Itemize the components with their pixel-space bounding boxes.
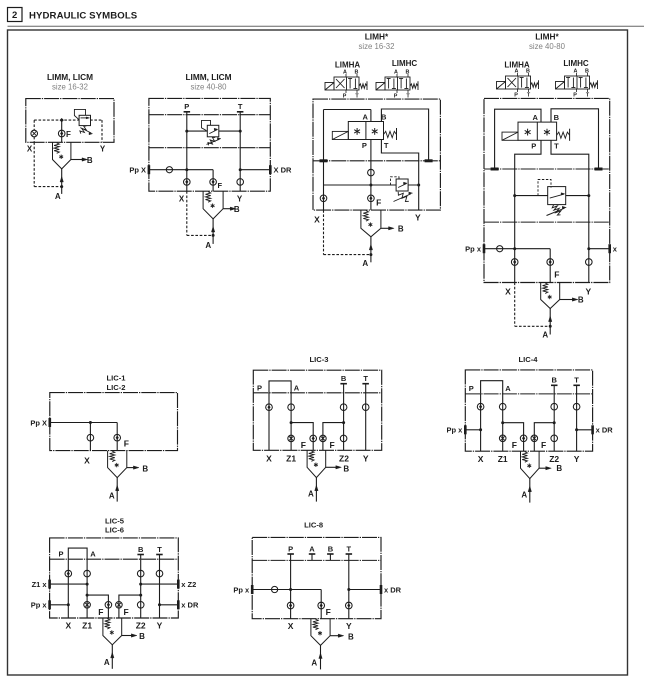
svg-text:Z1: Z1	[286, 453, 296, 463]
section line	[50, 558, 179, 560]
pilot valve body	[518, 122, 557, 140]
poppet valve body	[541, 283, 560, 309]
branch Z2 to F	[342, 421, 345, 424]
svg-text:A: A	[394, 69, 398, 75]
poppet setting asterisk	[369, 222, 371, 226]
LIMHC valve	[385, 77, 410, 90]
svg-text:T: T	[347, 544, 352, 553]
port x DR	[380, 585, 383, 594]
return spring	[557, 132, 570, 138]
pilot line dashed horizontal	[34, 119, 102, 121]
svg-text:LIMHA: LIMHA	[335, 61, 361, 70]
Pp line	[50, 422, 117, 424]
RV2 spring	[208, 137, 215, 145]
section line upper	[149, 114, 270, 116]
orifice F right cross	[531, 435, 538, 442]
svg-text:LIMM, LICM: LIMM, LICM	[47, 72, 93, 82]
svg-text:A: A	[205, 241, 211, 250]
svg-text:A: A	[311, 658, 317, 667]
orifice F	[114, 434, 121, 441]
manifold enclosure	[149, 98, 270, 191]
svg-text:A: A	[362, 259, 368, 268]
return spring	[359, 84, 367, 88]
return spring	[384, 131, 397, 137]
P-A bridge	[68, 548, 87, 559]
svg-text:T: T	[554, 142, 559, 151]
svg-text:A: A	[104, 658, 110, 667]
svg-text:Y: Y	[157, 621, 163, 631]
svg-text:B: B	[406, 69, 410, 75]
port x right	[608, 244, 611, 253]
orifice F	[318, 602, 325, 609]
relief valve body	[207, 125, 219, 137]
poppet setting asterisk	[60, 155, 62, 159]
svg-text:Z2: Z2	[549, 454, 559, 464]
poppet valve body	[53, 142, 71, 169]
svg-text:A: A	[294, 384, 300, 393]
manifold enclosure	[26, 99, 114, 143]
port B tick	[327, 553, 334, 555]
svg-text:P: P	[573, 93, 577, 99]
orifice Z2 lower	[551, 435, 558, 442]
orifice Z2 lower	[137, 602, 144, 609]
pilot line dashed X branch upper	[33, 120, 35, 130]
orifice Z1 upper	[499, 403, 506, 410]
dashed X line	[186, 191, 188, 235]
svg-text:Z1: Z1	[498, 454, 508, 464]
svg-text:A: A	[532, 113, 538, 122]
svg-text:X: X	[478, 454, 484, 464]
svg-text:P: P	[288, 544, 293, 553]
solenoid	[497, 82, 506, 90]
port x DR	[591, 425, 594, 434]
poppet setting asterisk	[549, 295, 551, 299]
svg-text:B: B	[355, 69, 359, 75]
svg-text:X: X	[84, 455, 90, 465]
P-A bridge	[481, 381, 503, 394]
header rule	[8, 25, 645, 27]
port x Z2	[177, 580, 180, 589]
gauge circle	[272, 586, 278, 592]
B column	[343, 384, 345, 451]
svg-text:Pp X: Pp X	[30, 418, 47, 427]
svg-text:B: B	[234, 205, 240, 214]
F column	[320, 590, 322, 619]
branch Z1 to F	[290, 421, 293, 424]
svg-text:B: B	[551, 376, 557, 385]
pilot line dashed to Y	[101, 120, 103, 142]
poppet valve body	[311, 619, 330, 646]
orifice under T	[586, 259, 593, 266]
svg-text:HYDRAULIC SYMBOLS: HYDRAULIC SYMBOLS	[29, 11, 138, 22]
A loop left vertical	[323, 110, 325, 161]
svg-text:F: F	[124, 607, 129, 617]
svg-text:T: T	[384, 141, 389, 150]
section line	[313, 160, 440, 162]
svg-text:P: P	[531, 142, 536, 151]
solenoid	[556, 82, 565, 90]
svg-text:F: F	[218, 181, 223, 190]
svg-text:F: F	[554, 270, 559, 280]
svg-text:Y: Y	[574, 454, 580, 464]
svg-text:Y: Y	[415, 212, 421, 222]
RV1 adjustment arrow	[80, 128, 91, 133]
tick left on section line	[320, 159, 328, 162]
svg-text:size 40-80: size 40-80	[529, 42, 566, 51]
svg-text:F: F	[376, 197, 381, 207]
P path	[515, 140, 541, 282]
svg-text:x DR: x DR	[596, 426, 614, 435]
B column	[553, 385, 555, 451]
port B branch	[330, 635, 339, 637]
RV1 pilot loop	[74, 109, 85, 119]
port Pp x	[48, 600, 51, 609]
svg-text:X: X	[266, 453, 272, 463]
poppet spring	[54, 143, 59, 154]
svg-text:A: A	[505, 384, 511, 393]
svg-text:A: A	[515, 68, 519, 74]
dashed X line below box	[33, 142, 35, 186]
RV2 adjustment arrow	[207, 139, 220, 144]
svg-text:LIC-6: LIC-6	[105, 526, 124, 535]
orifice under T	[346, 602, 353, 609]
svg-text:B: B	[341, 374, 347, 383]
LIMHA valve	[334, 77, 359, 90]
port T tick	[346, 553, 353, 555]
orifice under P	[287, 602, 294, 609]
svg-text:B: B	[138, 545, 144, 554]
relief valve body	[548, 187, 566, 205]
manifold enclosure	[484, 98, 610, 282]
port B branch	[71, 159, 83, 161]
dashed X line	[514, 283, 516, 327]
T column	[348, 554, 350, 619]
port B branch	[127, 467, 134, 469]
svg-text:F: F	[301, 440, 306, 450]
orifice F bottom	[368, 195, 375, 202]
port P tick	[184, 111, 191, 113]
RV4 adjustment arrow	[547, 208, 565, 215]
A line down to valve	[370, 110, 372, 122]
port A line	[529, 479, 531, 503]
tick right on section line	[425, 159, 433, 162]
svg-text:A: A	[521, 491, 527, 500]
relief valve line valve to T	[219, 130, 241, 132]
svg-text:B: B	[578, 295, 584, 304]
F column	[212, 170, 214, 192]
svg-text:P: P	[184, 102, 189, 111]
Pp line	[252, 589, 321, 591]
port Pp X left	[148, 165, 151, 174]
port B branch	[539, 467, 546, 469]
manifold enclosure	[313, 99, 440, 210]
B stub	[329, 554, 331, 560]
svg-text:A: A	[308, 490, 314, 499]
X column	[89, 423, 91, 451]
svg-text:P: P	[257, 384, 262, 393]
svg-text:Y: Y	[237, 195, 243, 204]
orifice Z1 upper	[288, 404, 295, 411]
port A line	[549, 309, 551, 335]
A stub	[311, 554, 313, 560]
port A line	[370, 237, 372, 262]
left column below section	[323, 161, 325, 210]
X column	[67, 559, 69, 618]
port A line	[320, 645, 322, 669]
svg-text:LIC-5: LIC-5	[105, 516, 125, 525]
header chapter number box	[8, 8, 23, 22]
orifice under T	[237, 179, 244, 186]
section line	[253, 392, 381, 394]
asterisk left position	[356, 128, 358, 135]
port B branch	[223, 208, 231, 210]
svg-text:A: A	[362, 113, 368, 122]
T drain path	[381, 140, 418, 211]
solenoid	[332, 131, 348, 139]
manifold enclosure	[465, 370, 592, 451]
port T tick	[156, 554, 163, 556]
svg-text:Pp X: Pp X	[129, 166, 146, 175]
svg-text:F: F	[512, 440, 517, 450]
Z1 column	[502, 394, 504, 451]
poppet spring	[309, 451, 314, 462]
port Z1 x	[48, 580, 51, 589]
orifice Z2 lower	[340, 435, 347, 442]
poppet setting asterisk	[528, 464, 530, 468]
P-A bridge	[269, 381, 291, 393]
port A line	[111, 645, 113, 669]
poppet spring	[313, 619, 318, 630]
svg-text:P: P	[469, 384, 474, 393]
port A line	[61, 169, 63, 194]
node line horizontal	[324, 184, 419, 186]
solenoid	[325, 83, 334, 91]
P line down	[370, 140, 372, 211]
poppet setting asterisk	[212, 204, 214, 208]
svg-text:B: B	[554, 113, 560, 122]
orifice X	[65, 570, 72, 577]
svg-text:x DR: x DR	[181, 601, 199, 610]
svg-text:Y: Y	[585, 287, 591, 297]
svg-text:A: A	[574, 68, 578, 74]
section line 2	[484, 221, 610, 223]
RV1 spring	[80, 126, 86, 134]
branch Z1 to F	[501, 421, 504, 424]
poppet spring	[206, 192, 211, 203]
orifice F	[210, 179, 217, 186]
svg-text:x DR: x DR	[384, 585, 402, 594]
port A line	[315, 478, 317, 502]
svg-text:X: X	[288, 621, 294, 631]
orifice B upper	[340, 404, 347, 411]
svg-text:B: B	[381, 113, 387, 122]
orifice B upper	[551, 403, 558, 410]
gauge circle	[497, 246, 503, 252]
A loop left	[495, 109, 541, 169]
port B branch	[122, 635, 132, 637]
manifold enclosure	[50, 538, 179, 618]
orifice X	[87, 434, 94, 441]
orifice F left	[310, 435, 317, 442]
svg-text:F: F	[98, 607, 103, 617]
port B tick	[551, 385, 558, 387]
svg-text:LIMH*: LIMH*	[365, 32, 389, 42]
svg-text:A: A	[542, 331, 548, 340]
svg-text:B: B	[398, 224, 404, 233]
RV3 adjustment arrow	[394, 194, 411, 202]
port A line	[116, 478, 118, 502]
port Pp X	[49, 418, 52, 427]
branch Z2 to F	[553, 421, 556, 424]
T path	[551, 140, 589, 282]
relief line	[515, 195, 589, 197]
svg-text:A: A	[55, 192, 61, 201]
asterisk right position	[546, 129, 548, 136]
orifice left bottom	[320, 195, 327, 202]
section line 1	[484, 168, 610, 170]
port P tick	[287, 553, 294, 555]
svg-text:2: 2	[12, 10, 17, 21]
svg-text:B: B	[87, 156, 93, 165]
port X DR right	[269, 165, 272, 174]
orifice F left	[520, 435, 527, 442]
svg-text:Y: Y	[363, 453, 369, 463]
section line	[465, 393, 592, 395]
svg-text:LIC-2: LIC-2	[107, 383, 126, 392]
orifice F right cross	[320, 435, 327, 442]
poppet valve body	[307, 450, 326, 477]
RV3 spring	[398, 192, 409, 202]
B loop right	[551, 109, 599, 169]
svg-text:LIMH*: LIMH*	[535, 32, 559, 42]
svg-text:B: B	[556, 464, 562, 473]
orifice Z1 upper	[84, 570, 91, 577]
orifice F	[547, 259, 554, 266]
orifice under P	[184, 179, 191, 186]
svg-text:F: F	[124, 438, 129, 448]
orifice Z1 lower cross	[84, 602, 91, 609]
section line lower	[149, 147, 270, 149]
svg-text:F: F	[66, 130, 71, 139]
svg-text:A: A	[90, 549, 96, 558]
svg-text:B: B	[142, 464, 148, 473]
svg-text:Pp x: Pp x	[31, 601, 48, 610]
Z1 column	[86, 559, 88, 618]
gauge circle	[166, 167, 172, 173]
A loop top horizontal	[324, 109, 371, 111]
svg-text:LIMM, LICM: LIMM, LICM	[185, 72, 231, 82]
manifold enclosure	[50, 393, 178, 451]
port x DR	[177, 600, 180, 609]
Pp line	[484, 248, 550, 250]
svg-text:LIC-8: LIC-8	[304, 520, 323, 529]
port T tick	[573, 385, 580, 387]
relief valve line P to valve	[187, 130, 208, 132]
port T tick	[237, 111, 244, 113]
svg-text:Y: Y	[346, 621, 352, 631]
orifice B upper	[137, 570, 144, 577]
svg-text:F: F	[326, 607, 331, 617]
port B branch	[326, 466, 337, 468]
svg-text:Y: Y	[100, 145, 106, 154]
poppet valve body	[108, 451, 127, 478]
node A junction	[60, 185, 63, 188]
svg-text:Pp x: Pp x	[465, 245, 482, 254]
Z1 column	[290, 393, 292, 451]
relief valve body	[396, 179, 408, 191]
svg-text:Pp x: Pp x	[233, 585, 250, 594]
svg-text:B: B	[585, 68, 589, 74]
port B branch	[560, 299, 573, 301]
svg-text:T: T	[574, 376, 579, 385]
svg-text:size 40-80: size 40-80	[191, 83, 228, 92]
poppet spring	[522, 452, 527, 463]
svg-text:Z2: Z2	[136, 621, 146, 631]
F column	[549, 249, 551, 283]
svg-text:F: F	[330, 440, 335, 450]
svg-text:X: X	[65, 621, 71, 631]
poppet valve body	[103, 618, 122, 645]
orifice X	[266, 404, 273, 411]
svg-text:P: P	[362, 141, 367, 150]
pilot valve body	[348, 122, 383, 140]
svg-text:P: P	[514, 93, 518, 99]
tick left on section line	[491, 168, 499, 171]
svg-text:X: X	[505, 287, 511, 297]
orifice on P line	[368, 169, 375, 176]
orifice Z1 lower cross	[288, 435, 295, 442]
P line	[186, 112, 188, 191]
F column	[116, 423, 118, 451]
svg-text:LIC-3: LIC-3	[310, 355, 329, 364]
svg-text:LIC-4: LIC-4	[519, 355, 539, 364]
svg-text:LIMHC: LIMHC	[563, 59, 589, 68]
B loop	[381, 109, 428, 161]
svg-text:X: X	[314, 215, 320, 225]
RV3 dashed pilot loop	[391, 177, 400, 185]
return spring	[590, 83, 598, 87]
orifice F right cross	[116, 602, 123, 609]
poppet valve body	[203, 191, 223, 219]
orifice X	[477, 403, 484, 410]
svg-text:Z1 x: Z1 x	[32, 580, 48, 589]
RV4 dashed pilot loop	[538, 180, 551, 196]
port B branch	[381, 227, 389, 229]
svg-text:B: B	[328, 544, 334, 553]
port A tick	[309, 553, 316, 555]
branch Z2 to F	[139, 594, 142, 597]
poppet valve body	[361, 210, 381, 237]
B column	[140, 555, 142, 619]
orifice X	[31, 130, 38, 137]
svg-text:X: X	[27, 145, 33, 154]
poppet setting asterisk	[319, 631, 321, 635]
T line	[239, 112, 241, 191]
svg-text:B: B	[348, 632, 354, 641]
solenoid	[502, 132, 518, 140]
T column	[159, 555, 161, 619]
orifice under P	[511, 259, 518, 266]
svg-text:x Z2: x Z2	[181, 580, 196, 589]
T column	[576, 385, 578, 451]
RV2 pilot loop	[202, 120, 211, 130]
pilot relief valve RV1	[79, 115, 90, 125]
section line	[252, 559, 381, 561]
svg-text:B: B	[139, 632, 145, 641]
port A line	[212, 219, 214, 244]
dashed X line	[323, 210, 325, 255]
T column	[365, 384, 367, 451]
